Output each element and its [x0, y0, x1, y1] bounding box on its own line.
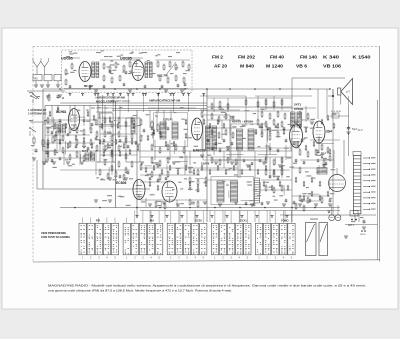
svg-text:FM 40: FM 40 — [270, 54, 285, 59]
tall module box 2 — [126, 118, 140, 162]
tube V1 — [79, 62, 91, 82]
heater wiring drops — [149, 211, 151, 223]
IF transformer 2 box — [231, 124, 267, 160]
output transformer — [211, 177, 254, 205]
svg-text:CON TASTI DI GAMMA: CON TASTI DI GAMMA — [41, 235, 70, 239]
svg-text:3S4: 3S4 — [326, 129, 332, 133]
IF coil 52F2 — [85, 153, 89, 161]
rectifier tube — [329, 175, 346, 192]
vertical wire scatter — [59, 122, 61, 150]
svg-text:M 840: M 840 — [240, 64, 255, 69]
svg-text:ZR M: ZR M — [360, 234, 366, 236]
svg-text:M 1240: M 1240 — [266, 64, 284, 69]
detector tube — [192, 118, 203, 140]
IF transformer 1 — [160, 122, 166, 139]
IF transformer 2 — [237, 129, 243, 150]
svg-text:FM 202: FM 202 — [238, 54, 256, 59]
left area small marks — [29, 92, 33, 93]
main bus wires — [43, 88, 208, 90]
main vertical bus x115 — [114, 101, 116, 208]
svg-text:FM 140: FM 140 — [300, 54, 318, 59]
svg-text:FM: FM — [96, 218, 100, 222]
tube V2 — [132, 61, 144, 81]
cap scatter — [51, 131, 54, 133]
svg-text:220 V: 220 V — [348, 224, 355, 227]
speaker — [341, 79, 353, 105]
IF transformer 3 — [291, 112, 296, 127]
svg-text:24T1: 24T1 — [294, 103, 301, 107]
tiny value labels scatter — [175, 161, 180, 162]
svg-text:y17: y17 — [346, 91, 351, 94]
svg-text:EABC80: EABC80 — [193, 149, 206, 153]
svg-text:una gamma onde ultracorte (FM): una gamma onde ultracorte (FM) da 87,5 a… — [48, 289, 232, 293]
band switch — [29, 127, 30, 128]
horizontal wire scatter — [45, 119, 95, 121]
svg-text:OC41: OC41 — [240, 218, 247, 222]
output choke ladder — [254, 178, 256, 203]
svg-text:VB 106: VB 106 — [323, 64, 342, 69]
FM box coils — [92, 62, 95, 78]
left switch lower — [30, 95, 31, 96]
filter choke — [317, 168, 327, 175]
left parts box — [43, 124, 57, 151]
svg-text:VEDI PREFERENZE: VEDI PREFERENZE — [41, 231, 66, 235]
svg-text:7A0: 7A0 — [34, 78, 39, 81]
mains marks — [351, 221, 355, 222]
output tube — [313, 121, 325, 143]
converter tube — [69, 109, 80, 131]
FM detector tube — [290, 125, 303, 148]
strip top pins — [136, 215, 139, 217]
IF transformer small pair — [206, 126, 211, 150]
filter cap 50uF b — [316, 150, 319, 152]
svg-text:6700H: 6700H — [294, 107, 304, 111]
antenna grounds — [34, 84, 38, 86]
speaker small part — [332, 95, 334, 97]
variable cap arrow — [166, 62, 176, 75]
svg-text:MA: MA — [150, 218, 154, 222]
oscillator coil — [58, 124, 61, 133]
IF1 parts — [151, 122, 153, 127]
svg-text:FM 2: FM 2 — [212, 54, 224, 59]
antenna 2 — [41, 61, 45, 67]
mains plug — [350, 211, 358, 217]
filter cap 50uF — [347, 127, 350, 129]
AF tube 2 (V7) — [162, 181, 177, 202]
svg-text:VB 6: VB 6 — [296, 64, 308, 69]
power transformer ladder — [352, 156, 354, 215]
antenna lower parts — [32, 93, 33, 94]
svg-text:2 ANTENNA MC: 2 ANTENNA MC — [28, 113, 47, 116]
AF tube 1 — [133, 180, 145, 200]
IF box 1 — [154, 113, 188, 147]
switch bank strip — [79, 223, 86, 255]
extra density parts — [49, 112, 51, 116]
antenna coupling boxes — [33, 75, 42, 81]
svg-text:MAGNADYNE RADIO - Modelli vari: MAGNADYNE RADIO - Modelli vari indicati … — [48, 283, 366, 287]
resistor scatter — [47, 128, 49, 132]
bus y103 — [60, 102, 207, 104]
svg-text:21T0 F1: 21T0 F1 — [163, 118, 173, 122]
pilot lamps — [329, 215, 335, 221]
tall module box 1 — [100, 113, 113, 162]
strip cell feed drops — [82, 218, 84, 224]
svg-text:41.5 GOH: 41.5 GOH — [331, 111, 341, 113]
svg-text:FONO: FONO — [281, 218, 289, 222]
IF2 side box — [203, 115, 230, 160]
svg-text:CONVERT. FM/AM: CONVERT. FM/AM — [110, 100, 130, 103]
svg-text:EC806: EC806 — [116, 181, 126, 185]
left box coil — [131, 119, 135, 133]
svg-text:OC25: OC25 — [195, 218, 202, 222]
svg-text:K 340: K 340 — [323, 54, 340, 59]
antenna 1 — [33, 61, 37, 67]
pin row under FM box — [97, 93, 100, 95]
tuning capacitor sections — [306, 223, 317, 256]
left area parts — [33, 138, 35, 143]
svg-text:V7: V7 — [180, 187, 184, 191]
transformer tap arrows — [363, 157, 370, 159]
FM tuner dashed box — [62, 50, 193, 92]
FM box bottom pin row — [69, 93, 72, 95]
ground scatter — [203, 201, 207, 203]
svg-text:AMPLIFICATORE MF/AM: AMPLIFICATORE MF/AM — [97, 96, 124, 99]
schematic outer frame — [33, 45, 380, 47]
bus junction dots — [59, 88, 61, 90]
speaker wires — [340, 92, 342, 105]
antenna lower wire — [27, 90, 65, 92]
FM box small parts — [65, 70, 67, 74]
svg-text:41,5: 41,5 — [358, 130, 363, 132]
svg-text:AF 20: AF 20 — [214, 64, 228, 69]
svg-text:K 1540: K 1540 — [353, 54, 372, 59]
svg-text:AMPLIFICATRICE MF-AM: AMPLIFICATRICE MF-AM — [149, 98, 180, 102]
svg-text:12AT6: 12AT6 — [201, 162, 210, 166]
transformer top box — [353, 152, 361, 156]
